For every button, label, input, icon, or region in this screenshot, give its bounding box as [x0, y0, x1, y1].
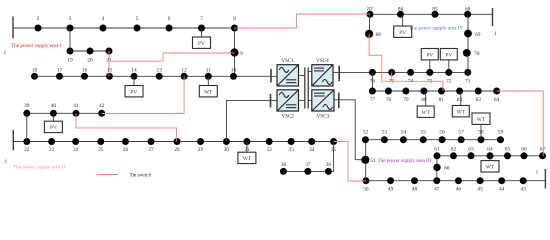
svg-text:47: 47 [434, 186, 440, 192]
node 54 [400, 136, 407, 143]
svg-text:6: 6 [168, 16, 171, 22]
svg-text:26: 26 [123, 147, 129, 153]
svg-text:19: 19 [67, 58, 73, 64]
node 30 [223, 138, 230, 145]
svg-text:PV: PV [445, 52, 452, 58]
node 29 [197, 138, 204, 145]
svg-text:12: 12 [181, 67, 187, 73]
node 72 [445, 69, 452, 76]
node 48 [411, 177, 418, 184]
svg-text:51: 51 [371, 158, 377, 164]
svg-text:85: 85 [432, 6, 438, 12]
tie switch node 41 to node 28 [76, 114, 177, 142]
svg-text:5: 5 [136, 16, 139, 22]
node 16 [81, 73, 88, 80]
node 15 [106, 73, 113, 80]
node 88 [365, 30, 373, 38]
tie switch spur to node 75 [391, 72, 393, 81]
node 68 [464, 11, 471, 18]
svg-text:9: 9 [240, 51, 243, 57]
svg-text:23: 23 [49, 147, 55, 153]
svg-text:40: 40 [51, 103, 57, 109]
svg-text:WT: WT [477, 117, 486, 123]
AC bus bar left of VSC1 [270, 69, 272, 83]
node 39 [23, 110, 30, 117]
node 28 [174, 138, 181, 145]
svg-text:8: 8 [233, 16, 236, 22]
svg-text:22: 22 [24, 147, 30, 153]
svg-text:56: 56 [439, 130, 445, 136]
node 56 [439, 136, 446, 143]
svg-text:25: 25 [98, 147, 104, 153]
wire node 87 to 88 [369, 14, 371, 34]
PV generator at node 14 [125, 76, 143, 97]
node 13 [156, 73, 163, 80]
node 44 [498, 177, 505, 184]
WT generator at node 11 [199, 76, 217, 97]
node 14 [131, 73, 138, 80]
wire node 76 to 77 [371, 72, 373, 91]
node 86 [397, 11, 404, 18]
legend tie switch line [98, 174, 118, 176]
wire feeder II main row (22-35) [13, 141, 333, 143]
node 49 [387, 177, 394, 184]
svg-text:29: 29 [198, 147, 204, 153]
node 37 [304, 168, 311, 175]
wire DC bus to VSC4 [308, 71, 312, 73]
wire feeder IV top row (87-86-85-68) [370, 13, 493, 15]
svg-text:46: 46 [456, 186, 462, 192]
svg-text:VSC4: VSC4 [316, 58, 329, 64]
wire node 47 to 60 to 61 [436, 156, 438, 181]
svg-text:84: 84 [494, 97, 500, 103]
node 74 [407, 69, 414, 76]
PV generator at node 40 [44, 113, 62, 132]
tie switch node 8 to node 87 [235, 14, 371, 28]
wire feeder IV row 71-76 [372, 71, 467, 73]
svg-text:WT: WT [457, 109, 466, 115]
node 66 [521, 152, 528, 159]
node 84 [493, 88, 500, 95]
node 27 [148, 138, 155, 145]
node 10 [230, 73, 237, 80]
node 33 [288, 138, 295, 145]
node 32 [266, 138, 273, 145]
svg-text:VSC1: VSC1 [281, 58, 294, 64]
svg-text:3: 3 [69, 16, 72, 22]
wire node 8 to 9 to 10 [234, 28, 236, 76]
svg-text:1: 1 [536, 170, 539, 176]
node 19 [67, 48, 74, 55]
svg-text:41: 41 [73, 103, 79, 109]
WT generator at node 82 [452, 91, 469, 117]
node 40 [50, 110, 57, 117]
node 80 [420, 88, 427, 95]
node 87 [367, 11, 374, 18]
svg-text:65: 65 [505, 146, 511, 152]
wire VSC1 to DC bus [299, 75, 305, 77]
svg-text:83: 83 [476, 97, 482, 103]
node 81 [438, 88, 445, 95]
svg-text:Tie switch: Tie switch [130, 173, 152, 179]
wire node 50-51-52 vertical [365, 140, 367, 181]
svg-text:81: 81 [439, 97, 445, 103]
svg-text:The power supply area II: The power supply area II [13, 165, 65, 171]
node 12 [181, 73, 188, 80]
node 5 [134, 25, 141, 32]
node 59 [497, 136, 504, 143]
node 65 [504, 152, 511, 159]
node 76 [369, 69, 376, 76]
svg-text:32: 32 [267, 147, 273, 153]
node 69 [464, 30, 472, 38]
wire feeder IV row 77-84 [372, 90, 496, 92]
WT generator at node 58 [472, 113, 490, 140]
svg-text:63: 63 [468, 146, 474, 152]
wire VSC4 to node 76 [333, 72, 372, 74]
svg-text:77: 77 [370, 97, 376, 103]
node 85 [432, 11, 439, 18]
svg-text:54: 54 [401, 130, 407, 136]
svg-text:1: 1 [5, 159, 8, 165]
svg-text:30: 30 [224, 147, 230, 153]
wire VSC2 to DC bus [299, 99, 305, 101]
op-amp VSC2 converter [277, 90, 299, 111]
node 47 [433, 177, 440, 184]
node 61 [434, 152, 441, 159]
node 31 [243, 138, 250, 145]
node 77 [369, 88, 376, 95]
node 45 [477, 177, 484, 184]
node 22 [23, 138, 30, 145]
node 63 [468, 152, 475, 159]
svg-text:17: 17 [57, 67, 63, 73]
node 83 [475, 88, 482, 95]
svg-text:11: 11 [206, 67, 211, 73]
node 23 [48, 138, 55, 145]
node 20 [87, 48, 94, 55]
node 60 [433, 164, 440, 171]
node 17 [56, 73, 63, 80]
node 43 [520, 177, 527, 184]
svg-text:VSC3: VSC3 [317, 114, 330, 120]
wire node 3 to node 19 [69, 28, 71, 51]
svg-text:71: 71 [465, 79, 471, 85]
svg-text:PV: PV [426, 52, 433, 58]
svg-text:53: 53 [382, 130, 388, 136]
svg-text:13: 13 [157, 67, 163, 73]
svg-text:24: 24 [73, 147, 79, 153]
tie switch node 84 to node 67 [497, 91, 544, 156]
node 26 [122, 138, 129, 145]
svg-text:34: 34 [309, 147, 315, 153]
PV generator at node 73 [421, 49, 438, 73]
node 34 [308, 138, 315, 145]
wire feeder III row 61-67 [437, 155, 543, 157]
node 41 [73, 110, 80, 117]
node 18 [31, 73, 38, 80]
svg-text:69: 69 [475, 32, 481, 38]
svg-text:37: 37 [305, 162, 311, 168]
node 7 [198, 25, 205, 32]
svg-text:43: 43 [521, 186, 527, 192]
svg-text:PV: PV [399, 30, 406, 36]
node 6 [166, 25, 173, 32]
node 38 [280, 168, 287, 175]
svg-text:The power supply area I: The power supply area I [11, 43, 62, 49]
PV generator at node 72 [440, 49, 457, 73]
PV generator at node 7 [193, 28, 211, 48]
svg-text:60: 60 [444, 166, 450, 172]
wire node 68-69-70-71 [467, 14, 469, 72]
node 79 [402, 88, 409, 95]
svg-text:72: 72 [446, 79, 452, 85]
node 51 [361, 156, 369, 164]
svg-text:WT: WT [204, 89, 213, 95]
node 78 [385, 88, 392, 95]
tie switch node 21 to node 15 [108, 51, 110, 76]
svg-text:50: 50 [363, 186, 369, 192]
svg-text:87: 87 [367, 6, 373, 12]
tie switch node 88 to node 75 and 81 [369, 34, 443, 91]
source bar feeder II (node 1) [12, 130, 14, 151]
svg-text:36: 36 [326, 162, 332, 168]
wire feeder III bottom row (50-43) [366, 180, 546, 182]
node 46 [455, 177, 462, 184]
svg-text:18: 18 [32, 67, 38, 73]
node 4 [100, 25, 107, 32]
svg-text:PV: PV [198, 41, 205, 47]
node 3 [67, 25, 74, 32]
node 35 [330, 138, 337, 145]
WT generator at node 64 [481, 156, 499, 172]
source bar feeder III (node 1) [544, 169, 546, 189]
svg-text:61: 61 [434, 146, 440, 152]
svg-text:14: 14 [131, 67, 137, 73]
svg-text:70: 70 [474, 51, 480, 57]
svg-text:4: 4 [102, 16, 105, 22]
node 11 [205, 73, 212, 80]
wire DC bus to VSC3 [308, 99, 312, 101]
svg-text:42: 42 [99, 103, 105, 109]
node 58 [478, 136, 485, 143]
node 62 [450, 152, 457, 159]
svg-text:49: 49 [388, 186, 394, 192]
AC bus bar left of VSC2 [270, 94, 272, 108]
svg-text:82: 82 [457, 97, 463, 103]
svg-text:59: 59 [498, 130, 504, 136]
node 55 [420, 136, 427, 143]
svg-text:10: 10 [231, 67, 237, 73]
WT generator at node 31 [238, 142, 256, 164]
svg-text:WT: WT [243, 156, 252, 162]
svg-text:20: 20 [87, 58, 93, 64]
node 25 [97, 138, 104, 145]
svg-text:78: 78 [386, 97, 392, 103]
node 24 [72, 138, 79, 145]
svg-text:16: 16 [82, 67, 88, 73]
AC bus bar right of VSC3 [338, 93, 340, 109]
svg-text:The power supply area IV: The power supply area IV [409, 25, 463, 31]
wire feeder I second row (18-10) to VSC1 [35, 75, 278, 77]
svg-text:33: 33 [288, 147, 294, 153]
node 2 [35, 25, 42, 32]
op-amp VSC4 converter [312, 65, 333, 86]
svg-text:62: 62 [451, 146, 457, 152]
svg-text:48: 48 [412, 186, 418, 192]
svg-text:7: 7 [200, 16, 203, 22]
wire feeder I main row (1-2-3-4-5-6-7-8) [13, 27, 235, 29]
tie switch branch to node 9 [109, 53, 235, 61]
svg-text:57: 57 [458, 130, 464, 136]
svg-text:2: 2 [37, 16, 40, 22]
PV generator at node 86 [394, 14, 412, 37]
DC bus bar right [307, 68, 309, 109]
svg-text:66: 66 [521, 146, 527, 152]
svg-text:27: 27 [148, 147, 154, 153]
node 53 [381, 136, 388, 143]
node 9 [230, 48, 238, 56]
tie switch node 42 to node 12 [102, 76, 184, 113]
source bar feeder I (node 1) [12, 17, 14, 39]
svg-text:44: 44 [499, 186, 505, 192]
node 50 [362, 177, 369, 184]
svg-text:68: 68 [465, 6, 471, 12]
node 73 [426, 69, 433, 76]
svg-text:52: 52 [363, 130, 369, 136]
node 57 [458, 136, 465, 143]
svg-text:1: 1 [4, 50, 7, 56]
node 75 [388, 69, 395, 76]
svg-text:45: 45 [477, 186, 483, 192]
node 21 [106, 48, 113, 55]
AC bus bar right of VSC4 [338, 66, 340, 82]
svg-text:86: 86 [398, 6, 404, 12]
wire branch 39-40-41-42 [27, 112, 102, 114]
node 71 [464, 69, 471, 76]
node 67 [539, 152, 546, 159]
node 36 [325, 168, 332, 175]
wire VSC3 to node 51 [334, 100, 365, 160]
svg-text:38: 38 [281, 162, 287, 168]
tie switch node 35 to node 50 [334, 142, 366, 182]
source bar feeder IV (node 1) [492, 8, 494, 26]
wire node 22 to 39 [26, 113, 28, 141]
wire node 30 to VSC2 [226, 100, 277, 141]
op-amp VSC3 converter [312, 90, 334, 111]
svg-text:VSC2: VSC2 [281, 114, 294, 120]
svg-text:PV: PV [50, 125, 57, 131]
node 8 [231, 25, 238, 32]
op-amp VSC1 converter [277, 65, 299, 86]
svg-text:67: 67 [540, 146, 546, 152]
WT generator at node 80 [417, 91, 434, 117]
svg-text:15: 15 [107, 67, 113, 73]
svg-text:PV: PV [131, 89, 138, 95]
node 70 [463, 49, 471, 57]
node 42 [98, 110, 105, 117]
svg-text:The power supply area III: The power supply area III [378, 158, 432, 164]
DC bus bar left [304, 68, 306, 109]
svg-text:WT: WT [422, 110, 431, 116]
svg-text:79: 79 [403, 97, 409, 103]
wire branch 19-20-21 [70, 50, 109, 52]
svg-text:88: 88 [376, 32, 382, 38]
svg-text:28: 28 [174, 147, 180, 153]
svg-text:39: 39 [24, 103, 30, 109]
svg-text:WT: WT [486, 164, 495, 170]
wire node 35 to branch 36-37-38 [283, 142, 333, 172]
svg-text:55: 55 [421, 130, 427, 136]
node 82 [456, 88, 463, 95]
svg-text:64: 64 [487, 146, 493, 152]
node 52 [362, 136, 369, 143]
node 64 [487, 152, 494, 159]
svg-text:1: 1 [494, 31, 497, 37]
wire feeder III row 52-59 [366, 139, 501, 141]
